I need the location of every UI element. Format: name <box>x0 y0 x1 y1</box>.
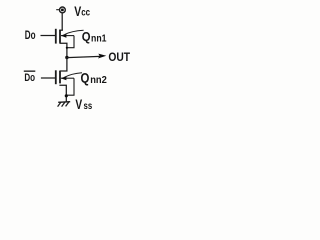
ground hatch 3 <box>66 102 69 107</box>
svg-text:cc: cc <box>81 7 90 19</box>
Vcc terminal <box>56 7 65 13</box>
label Vcc <box>74 4 90 19</box>
label Do-bar text <box>24 72 35 84</box>
label Vss <box>75 97 92 112</box>
label Do <box>25 28 36 42</box>
transistor Q2 body arrowhead <box>61 76 67 80</box>
node Q1 body-source junction <box>66 47 68 49</box>
arrowhead OUT <box>98 54 106 59</box>
ground bar <box>58 101 70 104</box>
label OUT <box>108 50 130 64</box>
svg-text:nn2: nn2 <box>90 75 107 86</box>
transistor Q1 gate bar <box>55 29 57 44</box>
leader curve to label Qnn2 <box>65 73 82 78</box>
transistor Q2 channel bar <box>59 71 61 83</box>
transistor Q1 body arrowhead <box>61 34 67 38</box>
wire Q1 body loop <box>67 36 74 48</box>
svg-text:ss: ss <box>84 101 93 112</box>
label Qnn1 <box>82 29 107 45</box>
transistor Q1 body line <box>61 35 74 37</box>
label Qnn2 <box>81 70 108 86</box>
node OUT junction dot <box>65 56 68 59</box>
wire Q2 source lead <box>59 85 66 102</box>
ground hatch 2 <box>62 102 65 107</box>
leader curve to label Qnn1 <box>65 30 84 34</box>
svg-text:Q: Q <box>82 29 91 44</box>
wire Q2 body loop <box>66 78 74 95</box>
wire Qnn1 drain stub <box>59 29 63 31</box>
svg-text:OUT: OUT <box>108 50 130 64</box>
transistor Q2 body line <box>61 77 74 79</box>
wire Vcc to Qnn1 drain <box>61 13 63 30</box>
node source junction dot <box>65 94 68 97</box>
wire Do-bar input lead <box>41 77 55 79</box>
transistor Q2 gate bar <box>55 70 57 84</box>
wire OUT line <box>67 56 100 57</box>
wire OUT rail to Q2 drain <box>59 58 67 72</box>
wire Q1 source lead <box>59 43 67 57</box>
svg-text:Do: Do <box>25 28 36 42</box>
ground hatch 1 <box>58 102 61 107</box>
svg-text:V: V <box>75 97 82 112</box>
transistor Q1 channel bar <box>59 30 61 43</box>
svg-text:Do: Do <box>24 72 35 84</box>
label Do-bar overbar <box>24 71 36 72</box>
wire Do input lead <box>41 35 56 37</box>
svg-text:nn1: nn1 <box>91 34 107 45</box>
svg-text:Q: Q <box>81 70 90 85</box>
